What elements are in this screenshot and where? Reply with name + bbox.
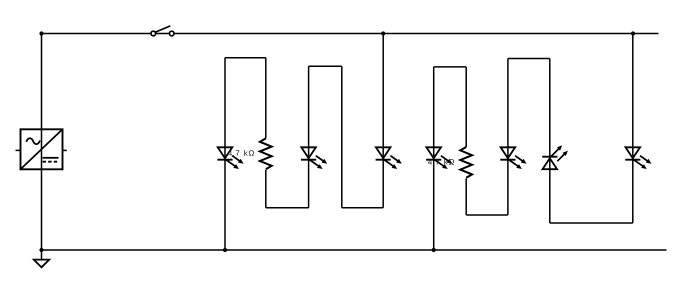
wire LED D4 branch vertical bbox=[433, 67, 435, 250]
wire top rail bbox=[42, 33, 659, 35]
wire resistor R2 branch upper bbox=[465, 67, 467, 147]
wire top of second loop bbox=[309, 65, 342, 67]
switch S1 (open) bbox=[151, 26, 174, 36]
wire bottom of fourth U bbox=[550, 222, 633, 224]
wire resistor R1 branch lower bbox=[265, 170, 267, 208]
wire resistor R2 branch lower bbox=[465, 178, 467, 215]
wire left branch (supply) bbox=[41, 34, 43, 251]
LED D6 bbox=[542, 145, 568, 169]
wire LED D2 branch vertical bbox=[308, 66, 310, 207]
ground bbox=[34, 250, 49, 267]
wire LED D5 branch vertical bbox=[507, 59, 509, 216]
wire top of fourth loop bbox=[508, 58, 550, 60]
wire LED D6 branch vertical bbox=[549, 59, 551, 224]
resistor R2 bbox=[460, 147, 472, 178]
junction node: D7 string to top rail bbox=[631, 31, 635, 35]
wire top of first loop bbox=[225, 57, 266, 59]
wire top of third loop bbox=[434, 66, 467, 68]
LED D1 bbox=[217, 147, 243, 169]
LED D3 bbox=[376, 147, 402, 169]
wire resistor R1 branch upper bbox=[265, 58, 267, 139]
junction node: D4 string to bottom rail bbox=[432, 248, 436, 252]
junction node: supply to bottom rail bbox=[39, 248, 43, 252]
junction node: D3 string to top rail bbox=[381, 31, 385, 35]
wire LED D7 branch vertical bbox=[632, 34, 634, 224]
label R2 value 4.7 kOhm bbox=[428, 159, 454, 165]
wire return vertical bbox=[341, 66, 343, 207]
LED D5 bbox=[500, 147, 526, 169]
wire bottom rail bbox=[42, 249, 667, 251]
power supply U1 (AC/DC converter) bbox=[16, 129, 67, 169]
wire bottom of third U bbox=[466, 214, 508, 216]
LED D2 bbox=[301, 147, 327, 169]
wire LED D3 branch vertical bbox=[382, 34, 384, 208]
resistor R1 bbox=[260, 138, 272, 169]
junction node: D1 string to bottom rail bbox=[223, 248, 227, 252]
wire bottom of second U bbox=[342, 207, 383, 209]
label R1 value 4.7 kOhm bbox=[228, 150, 254, 156]
wire bottom of first U bbox=[266, 207, 309, 209]
junction node: supply to top rail bbox=[39, 31, 43, 35]
LED D4 bbox=[426, 147, 452, 169]
LED D7 bbox=[625, 147, 651, 169]
wire LED D1 branch vertical bbox=[224, 58, 226, 250]
